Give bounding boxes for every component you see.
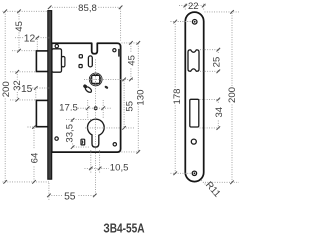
ticks 22 <box>184 4 188 8</box>
ticks 10.5 <box>89 167 93 171</box>
deadbolt <box>36 100 50 126</box>
dim 178 line <box>174 22 176 174</box>
deadbolt bottom tie <box>28 126 37 128</box>
svg-text:10,5: 10,5 <box>110 162 129 173</box>
dim 200 right line <box>205 12 240 182</box>
deadbolt cutout <box>190 99 199 127</box>
ticks 17.5 <box>86 106 90 110</box>
dim 22 line <box>179 5 206 7</box>
dim 17.5 line <box>78 107 111 109</box>
dim 45 mid line <box>130 44 132 79</box>
latch cutout <box>188 50 199 71</box>
svg-text:64: 64 <box>29 152 40 163</box>
svg-text:178: 178 <box>172 88 183 104</box>
ticks 45 top-left <box>17 10 21 14</box>
ticks 34 <box>217 98 221 102</box>
svg-text:130: 130 <box>135 90 146 106</box>
ticks bottom 55 <box>47 194 51 198</box>
svg-text:45: 45 <box>14 21 25 32</box>
cylinder top tie <box>66 119 91 121</box>
faceplate edge view (bar) <box>48 11 52 180</box>
latch bottom tie <box>10 71 36 73</box>
handle fixing square holes <box>79 55 82 58</box>
keyhole stem ext lines <box>91 150 100 174</box>
svg-text:33,5: 33,5 <box>64 124 75 143</box>
screw hole bottom-right <box>113 143 116 146</box>
svg-text:12: 12 <box>24 33 36 44</box>
spring slot <box>88 56 92 67</box>
ticks 85.8 <box>48 6 52 10</box>
faceplate bottom screw hole <box>192 171 196 175</box>
plate edges ext <box>185 4 203 11</box>
dim 200 left line <box>4 11 6 181</box>
dim 15 line <box>20 87 47 89</box>
deadbolt tip ext <box>35 90 37 100</box>
svg-text:45: 45 <box>127 55 138 66</box>
lock case outline <box>52 43 121 152</box>
dim 55 mid line <box>123 81 125 128</box>
dim 55 bottom line <box>49 194 95 196</box>
dim 34 line <box>217 99 219 128</box>
deadbolt cutout ties <box>200 99 220 128</box>
svg-text:200: 200 <box>1 81 12 97</box>
plate top tie <box>3 10 48 12</box>
svg-text:22: 22 <box>188 1 199 12</box>
backset center line <box>95 60 97 196</box>
top hole tie <box>171 21 192 23</box>
svg-text:55: 55 <box>125 101 136 112</box>
ticks 33.5 <box>71 118 75 122</box>
ext right of 85.8 <box>120 9 122 41</box>
R11 leader <box>201 180 206 185</box>
tick 15 <box>34 86 38 90</box>
dim 33.5 line <box>72 121 74 147</box>
follower spring hook <box>82 84 108 94</box>
faceplate top screw hole <box>192 20 197 25</box>
bottom hole tie <box>171 172 192 174</box>
17.5 ext lines <box>88 100 104 118</box>
plate bottom tie <box>3 181 50 183</box>
tick 12 <box>36 36 40 40</box>
dim 10.5 line <box>85 167 110 169</box>
screw hole bottom-left <box>55 137 58 140</box>
faceplate middle screw hole <box>191 139 196 144</box>
svg-text:25: 25 <box>212 57 223 68</box>
ticks mid 55 <box>122 78 126 82</box>
faceplate front outline <box>185 12 203 182</box>
svg-text:15: 15 <box>21 84 33 95</box>
ticks 200 right <box>230 10 234 14</box>
dark stop block at right wall <box>118 49 120 57</box>
dim 64 line <box>33 128 35 182</box>
tick marks <box>3 4 233 197</box>
svg-text:85,8: 85,8 <box>78 3 97 14</box>
cylinder center line <box>85 127 135 129</box>
ticks 200 left <box>3 10 7 14</box>
dim 12 line <box>15 37 47 39</box>
screw hole top-right <box>113 49 116 52</box>
case top tie <box>122 42 140 44</box>
latch housing inside case <box>52 49 65 72</box>
case bottom tie <box>122 151 140 153</box>
small hole between follower and cylinder <box>94 107 97 110</box>
dim 130 line <box>137 44 139 152</box>
follower center line <box>84 78 135 80</box>
dim 45 top-left line <box>18 11 20 50</box>
latch cutout ties <box>200 50 220 72</box>
euro cylinder keyhole <box>87 119 104 147</box>
ticks 64 <box>32 125 36 129</box>
svg-text:55: 55 <box>64 191 76 202</box>
ticks 25 <box>217 48 221 52</box>
ticks 32 <box>16 70 20 74</box>
latch top tie <box>12 50 36 52</box>
plate bottom tie right <box>205 181 239 183</box>
follower (square spindle hub) <box>89 73 102 86</box>
deadbolt top tie <box>10 99 36 101</box>
ticks 130 <box>137 41 141 45</box>
dim 32 line <box>16 72 18 100</box>
svg-text:200: 200 <box>227 87 238 103</box>
dim 25 line <box>217 50 219 72</box>
ticks mid 45 <box>129 41 133 45</box>
cylinder clip <box>81 139 85 145</box>
svg-text:ЗВ4-55А: ЗВ4-55А <box>103 221 145 235</box>
dimension labels <box>1 1 238 202</box>
ticks 178 <box>173 20 177 24</box>
svg-text:17.5: 17.5 <box>59 102 78 113</box>
svg-text:34: 34 <box>214 106 225 117</box>
latch bolt <box>36 51 50 72</box>
screw hole top-left <box>55 44 58 47</box>
latch tip ext <box>36 39 38 50</box>
dim 85.8 line <box>50 6 121 8</box>
bar bottom ext <box>48 183 50 200</box>
cylinder bottom tie <box>74 146 91 148</box>
